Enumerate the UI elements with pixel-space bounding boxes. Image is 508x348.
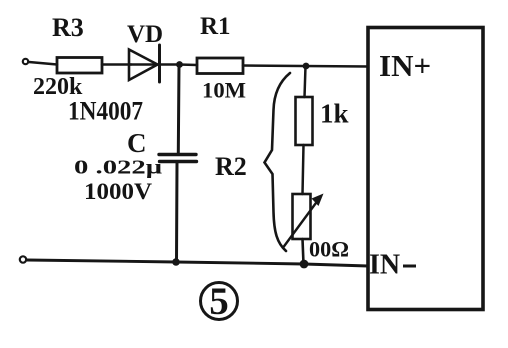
terminal bottom input [20, 256, 26, 262]
svg-text:1k: 1k [320, 99, 349, 129]
svg-text:0 .022μ: 0 .022μ [74, 157, 163, 179]
terminal top input [23, 59, 28, 64]
R2 brace [265, 73, 291, 251]
svg-text:5: 5 [209, 280, 229, 323]
wire 1k to rheostat [303, 145, 304, 194]
rheostat arrow [284, 200, 319, 248]
svg-text:C: C [127, 128, 147, 158]
svg-text:R1: R1 [200, 13, 231, 40]
rheostat R2 variable part [293, 194, 311, 239]
svg-text:IN: IN [369, 250, 400, 281]
capacitor C [159, 153, 196, 156]
svg-text:R2: R2 [215, 152, 247, 181]
resistor R1 [197, 58, 243, 74]
wire R3 to diode VD [102, 63, 131, 66]
wire bottom rail [27, 260, 368, 266]
wire through diode to node A [131, 63, 180, 66]
IC block [368, 28, 483, 310]
resistor R3 [57, 58, 102, 74]
svg-text:1N4007: 1N4007 [68, 96, 143, 126]
node C junction dot [172, 258, 180, 266]
svg-text:VD: VD [127, 21, 163, 48]
diode VD [129, 50, 158, 81]
wire node A down to capacitor C [177, 65, 181, 153]
wire top rail: terminal to R3 [29, 62, 57, 65]
svg-text:IN+: IN+ [379, 48, 431, 83]
svg-text:R3: R3 [52, 13, 84, 42]
figure number 5 circle [201, 283, 238, 320]
resistor R2 fixed part 1k [296, 97, 313, 145]
node B junction dot [303, 63, 310, 70]
node A junction dot [176, 61, 183, 68]
svg-text:00Ω: 00Ω [309, 237, 349, 262]
node D junction dot [300, 260, 309, 269]
wire capacitor to bottom rail [175, 163, 179, 262]
wire R1 to IC box IN+ [243, 66, 368, 67]
svg-text:1000V: 1000V [84, 179, 152, 205]
wire node A to R1 [179, 63, 197, 66]
wire node B down to 1k resistor [305, 66, 306, 97]
svg-text:10M: 10M [202, 78, 246, 103]
wire rheostat to bottom rail [303, 239, 304, 264]
